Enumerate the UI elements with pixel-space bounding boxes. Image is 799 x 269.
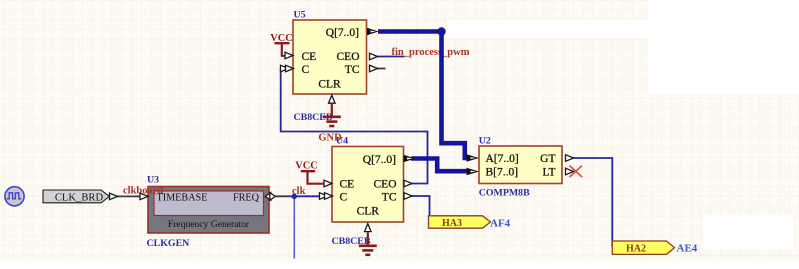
comparator U2 body [479,146,562,184]
port HA3 [429,216,491,228]
svg-text:VCC: VCC [270,33,293,44]
pin arrow U4.CE [324,180,332,187]
svg-text:C: C [302,64,310,76]
wire U5.C to U4.CEO [281,69,428,184]
svg-text:fin_process_pwm: fin_process_pwm [392,47,470,58]
bus pin arrow U2.A [467,154,480,162]
wire CLK_BRD to U3.TIMEBASE [117,195,141,197]
pin arrow U5.TC [370,65,378,72]
svg-text:U4: U4 [336,136,348,147]
pin arrow U2.LT [566,168,574,175]
svg-text:AF4: AF4 [490,218,511,230]
svg-text:CLK_BRD: CLK_BRD [55,193,104,204]
svg-text:AE4: AE4 [677,243,698,255]
pin arrow U5.CEO [370,53,378,60]
GND power port below U4.CLR [359,232,377,254]
svg-text:CLR: CLR [318,79,341,91]
pin arrow U4.TC [404,193,412,200]
junction clk [292,194,297,199]
port arrow CLK_BRD [110,193,118,200]
bus pin arrow U2.B [467,168,480,176]
svg-text:Frequency Generator: Frequency Generator [168,219,250,230]
white overlay top right [648,0,799,94]
svg-text:Q[7..0]: Q[7..0] [363,154,396,166]
port CLK_BRD [43,190,110,203]
GND power port below U5.CLR [323,104,341,126]
pin arrows U4.C clock [320,193,328,200]
svg-text:C: C [340,192,348,204]
VCC power port at U5.CE [275,43,290,56]
no-ERC marker on U2.LT [570,166,583,177]
bus U5.Q to U2.A [378,32,469,159]
white overlay band top [446,20,648,38]
white overlay bottom strip [0,261,799,269]
counter U5 body [293,20,367,94]
wire clk junction to U4.C [294,195,324,197]
clock source icon [5,187,24,206]
bus pin arrow U5.Q [367,28,379,35]
svg-text:HA3: HA3 [442,218,462,229]
pin arrow U4.CLR [365,224,372,232]
svg-text:CLKGEN: CLKGEN [147,238,190,249]
wire U5.CEO fin_process_pwm [377,56,405,58]
svg-text:COMPM8B: COMPM8B [479,188,530,199]
white overlay bottom right [703,215,793,250]
wire U2.GT to port HA2 [574,158,613,248]
pin arrow U2.GT [566,155,574,162]
svg-text:TC: TC [345,64,360,76]
wire clk vertical stub [293,196,295,258]
svg-text:FREQ: FREQ [233,193,260,204]
wire U3.FREQ to clk junction [275,195,295,197]
svg-text:clk: clk [292,186,306,197]
pin arrow U3.FREQ bidirectional [265,193,275,201]
svg-text:U3: U3 [147,175,159,186]
svg-text:A[7..0]: A[7..0] [486,153,519,165]
bus pin arrow U4.Q [404,155,416,162]
svg-text:CE: CE [340,179,355,191]
svg-text:Q[7..0]: Q[7..0] [326,27,359,39]
pin arrow U5.CLR [329,95,336,103]
svg-text:U2: U2 [479,136,491,147]
svg-text:CEO: CEO [374,179,397,191]
svg-text:B[7..0]: B[7..0] [486,167,519,179]
svg-text:TIMEBASE: TIMEBASE [157,193,208,204]
pin arrow U5.CE [285,52,293,59]
svg-text:LT: LT [543,167,556,179]
counter U4 body [332,147,404,223]
sheet symbol U3 frequency generator [148,187,269,234]
svg-text:GT: GT [540,153,555,165]
bus U4.Q to U2.B [411,159,469,172]
svg-text:CLR: CLR [357,206,380,218]
wire stub U5.TC [377,68,386,70]
wire U4.TC to port HA3 [411,196,430,222]
pin arrow U3.TIMEBASE [140,193,148,200]
port HA2 [612,241,674,254]
svg-text:U5: U5 [294,10,306,21]
svg-text:TC: TC [382,192,397,204]
pin arrow U4.CEO [404,180,412,187]
svg-text:HA2: HA2 [626,244,646,255]
pin arrows U5.C clock [281,65,289,72]
bus corner junction [437,27,445,35]
VCC power port at U4.CE [301,171,324,184]
svg-text:CEO: CEO [337,51,360,63]
svg-text:CE: CE [302,51,317,63]
svg-text:VCC: VCC [295,161,318,172]
